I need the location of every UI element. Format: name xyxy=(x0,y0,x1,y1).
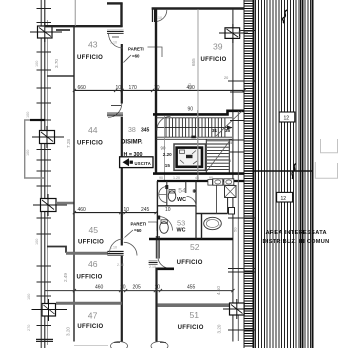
stair arrow xyxy=(158,127,233,129)
column C4 bottom-left xyxy=(32,299,68,321)
svg-text:2.49: 2.49 xyxy=(63,273,68,282)
svg-text:=60: =60 xyxy=(134,228,142,233)
svg-text:245: 245 xyxy=(141,207,150,213)
svg-text:10: 10 xyxy=(120,284,126,290)
door47 bottom arc xyxy=(111,342,128,348)
door51 bottom arc xyxy=(151,342,168,348)
svg-text:20: 20 xyxy=(224,76,228,80)
door52 leaf tick xyxy=(149,261,158,265)
svg-text:WC: WC xyxy=(177,228,186,234)
wall 45/46 gray bar y253 xyxy=(66,252,108,255)
svg-text:UFFICIO: UFFICIO xyxy=(77,275,103,281)
pareti note room43 xyxy=(128,47,144,59)
left wall inner line xyxy=(44,0,46,348)
left wall ticks xyxy=(36,9,53,342)
svg-text:UFFICIO: UFFICIO xyxy=(77,141,103,147)
top wall room39 y8.5 xyxy=(152,7,244,9)
svg-text:54: 54 xyxy=(178,188,186,195)
door43 tick xyxy=(112,36,119,38)
small rotated dim texts left xyxy=(26,61,39,331)
sill tick top-left xyxy=(56,29,70,31)
stairwell top wall xyxy=(153,111,244,115)
wc inner door arc xyxy=(187,197,197,207)
svg-text:1.10: 1.10 xyxy=(110,41,117,45)
svg-text:2.10: 2.10 xyxy=(117,263,124,267)
sink row rects xyxy=(213,179,223,185)
svg-text:45: 45 xyxy=(195,176,199,180)
exit sign box xyxy=(120,157,153,168)
door44 leaf xyxy=(107,113,123,117)
svg-text:12: 12 xyxy=(284,116,290,122)
door46 leaf striped xyxy=(107,251,123,256)
pareti note room45 xyxy=(131,222,147,233)
svg-text:1.10: 1.10 xyxy=(110,246,117,250)
svg-text:490: 490 xyxy=(187,83,192,90)
svg-text:12: 12 xyxy=(281,196,287,202)
column C2 left xyxy=(32,126,64,148)
thin line above left wall xyxy=(74,0,76,26)
right wall second line x238 xyxy=(237,111,239,341)
svg-text:170: 170 xyxy=(129,85,138,91)
elevator outer xyxy=(174,144,206,170)
svg-text:9: 9 xyxy=(219,224,221,228)
svg-text:DISTRIBUZ. IN COMUN: DISTRIBUZ. IN COMUN xyxy=(263,239,330,245)
left wall third line xyxy=(46,20,48,345)
wc partition y206 xyxy=(157,205,196,207)
flight2 break diagonal xyxy=(207,142,229,171)
svg-text:455: 455 xyxy=(187,284,196,290)
flight2 treads xyxy=(207,141,229,170)
balcony dark stub at y120 xyxy=(30,119,45,121)
svg-text:7.28: 7.28 xyxy=(66,139,71,148)
wc partition x216 xyxy=(216,181,218,214)
anti wall x201 xyxy=(201,214,203,240)
svg-text:2.10: 2.10 xyxy=(149,265,156,269)
wall 44 right x122 upper stub xyxy=(121,90,123,103)
svg-text:270: 270 xyxy=(27,325,31,331)
svg-text:DISIMP.: DISIMP. xyxy=(121,139,143,145)
wc door leaf lower xyxy=(157,216,160,220)
wall step y246 xyxy=(47,247,66,253)
svg-text:UFFICIO: UFFICIO xyxy=(201,57,227,63)
dim line y90 xyxy=(74,89,244,91)
column right top xyxy=(219,24,248,43)
dim ticks y212 xyxy=(73,211,158,214)
column C1 top-left xyxy=(30,22,62,42)
svg-text:90: 90 xyxy=(188,107,194,113)
wc partition x196 xyxy=(195,181,197,239)
wc door arc upper xyxy=(159,187,167,195)
right wall ticks xyxy=(228,31,256,331)
flight1 bottom line xyxy=(156,136,232,138)
dim line y212.6 xyxy=(74,212,157,214)
door39 leaf xyxy=(152,10,156,23)
svg-text:100: 100 xyxy=(27,294,31,300)
wc left wall x157 xyxy=(156,181,158,239)
wall hatch ladder band left edge xyxy=(243,0,245,348)
wc partition y213.5 xyxy=(196,213,228,215)
svg-text:1.20: 1.20 xyxy=(173,176,180,180)
svg-text:UFFICIO: UFFICIO xyxy=(77,55,103,61)
top notch horizontal xyxy=(107,2,123,4)
neighbour outline lower (light gray) xyxy=(315,162,337,178)
wall stub gray y203 xyxy=(56,202,74,204)
svg-text:100: 100 xyxy=(26,112,30,118)
basin oval anti xyxy=(204,217,222,229)
svg-text:10: 10 xyxy=(116,85,122,91)
svg-text:5: 5 xyxy=(229,159,231,163)
svg-text:205: 205 xyxy=(133,284,142,290)
svg-text:35: 35 xyxy=(228,141,232,145)
rotated dims right rooms xyxy=(187,58,238,334)
flight1 top line xyxy=(156,117,232,119)
stairwell bottom wall xyxy=(153,172,244,175)
stair break diagonal xyxy=(216,111,242,136)
column C3 left xyxy=(33,194,67,216)
dim ticks y90 xyxy=(73,89,246,92)
svg-text:31: 31 xyxy=(212,128,218,133)
svg-text:35: 35 xyxy=(225,128,231,133)
svg-text:10: 10 xyxy=(165,207,171,213)
svg-text:PARETI: PARETI xyxy=(131,222,147,227)
column right bottom xyxy=(223,299,252,319)
left wall outer line xyxy=(40,0,42,348)
svg-text:39: 39 xyxy=(213,42,223,52)
dim line x198 over core xyxy=(197,110,199,181)
svg-text:10: 10 xyxy=(155,284,161,290)
beam band 47 gray xyxy=(56,302,122,305)
bottom faint line xyxy=(74,345,108,347)
svg-text:47: 47 xyxy=(88,310,98,320)
svg-text:UFFICIO: UFFICIO xyxy=(177,260,203,266)
svg-text:4.55: 4.55 xyxy=(237,29,242,38)
svg-text:46: 46 xyxy=(88,259,98,269)
S squiggle mid xyxy=(292,164,296,179)
svg-text:90: 90 xyxy=(161,146,166,151)
svg-text:3.20: 3.20 xyxy=(66,327,71,336)
svg-text:38: 38 xyxy=(128,127,136,134)
toilet wc53 xyxy=(160,222,169,234)
star mark wc54 xyxy=(193,189,197,193)
svg-text:UFFICIO: UFFICIO xyxy=(78,240,104,246)
svg-text:WC: WC xyxy=(177,197,186,203)
beam band 51 gray xyxy=(158,303,233,307)
L wall 52 corner xyxy=(157,267,175,270)
wc door leaf upper xyxy=(165,185,168,189)
svg-text:4.10: 4.10 xyxy=(216,286,221,295)
wall 44 right x122 main xyxy=(121,117,123,246)
vertical hatch band xyxy=(256,0,311,348)
svg-text:660: 660 xyxy=(78,85,87,91)
balcony outline gray L left xyxy=(25,120,44,178)
wc corridor wall x167 xyxy=(166,181,168,206)
svg-text:53: 53 xyxy=(177,218,185,227)
svg-text:43: 43 xyxy=(88,40,98,50)
bottom ticks xyxy=(114,342,120,344)
svg-text:AREA INTERESSATA: AREA INTERESSATA xyxy=(266,230,327,236)
corridor wall B leaf striped xyxy=(155,236,160,259)
door44 tick xyxy=(111,105,121,107)
RIGHTBAND xyxy=(244,0,312,348)
left room wall x74 xyxy=(73,25,75,342)
wc partition x186 xyxy=(185,181,187,193)
door46 arc2 xyxy=(110,239,124,253)
svg-text:655: 655 xyxy=(191,58,196,66)
hatch band darker line pair xyxy=(299,0,301,348)
svg-text:52: 52 xyxy=(190,242,200,252)
svg-text:45: 45 xyxy=(89,225,99,235)
sink small rect xyxy=(208,180,213,186)
neighbour outline upper (light gray) xyxy=(321,139,338,153)
ladder band right thick edge xyxy=(252,0,254,348)
elevator top tick xyxy=(191,136,196,139)
shower square xyxy=(225,186,237,198)
rotated room dims left column xyxy=(54,59,71,336)
landing line y139 xyxy=(156,138,232,140)
svg-text:3.70: 3.70 xyxy=(54,59,59,68)
wc door arc lower xyxy=(159,217,173,231)
door43 leaf xyxy=(107,30,124,34)
wall 43/39 x122 xyxy=(121,44,123,90)
boiler box right xyxy=(229,208,235,215)
dim line y290.6 xyxy=(45,290,233,292)
svg-text:PARETI: PARETI xyxy=(128,47,144,52)
svg-text:460: 460 xyxy=(95,284,104,290)
label box 12 lower xyxy=(277,192,293,202)
wc top wall y181 xyxy=(157,180,244,182)
svg-text:90: 90 xyxy=(206,218,210,222)
svg-text:50: 50 xyxy=(233,227,238,232)
wc bottom wall y239 xyxy=(149,238,233,240)
dim row y210 texts xyxy=(78,207,171,213)
svg-text:3.20: 3.20 xyxy=(217,324,222,333)
elevator marks xyxy=(186,155,193,158)
dim row y87 texts xyxy=(78,85,196,91)
wall stub y75 xyxy=(47,75,74,77)
pareti leader room43 xyxy=(124,47,163,63)
svg-text:10: 10 xyxy=(124,207,130,213)
door43 arc xyxy=(109,34,123,48)
svg-text:100: 100 xyxy=(26,150,30,156)
pareti leader room45 xyxy=(125,222,158,238)
svg-text:44: 44 xyxy=(88,125,98,135)
svg-text:USCITA: USCITA xyxy=(135,161,151,166)
dim ticks y290 xyxy=(73,289,235,292)
svg-text:UFFICIO: UFFICIO xyxy=(77,324,103,330)
top wall room43 y26 xyxy=(45,25,123,27)
svg-text:=60: =60 xyxy=(132,54,140,59)
dim line vertical x198 xyxy=(197,9,199,181)
svg-text:460: 460 xyxy=(78,207,87,213)
room39 left wall x156 xyxy=(155,9,157,173)
svg-text:2.20: 2.20 xyxy=(163,152,172,157)
flight1 treads xyxy=(166,118,225,137)
top notch right vertical xyxy=(120,3,122,27)
stair door arc xyxy=(157,116,171,130)
svg-text:51: 51 xyxy=(190,310,200,320)
door52 arc xyxy=(158,259,171,269)
svg-text:15: 15 xyxy=(165,163,171,168)
S squiggle top xyxy=(283,10,287,23)
horizontal line crossing band xyxy=(244,170,313,172)
wc microdims top xyxy=(159,176,213,180)
flight2 side lines xyxy=(205,139,207,172)
corridor line x164 xyxy=(164,116,166,181)
right inner wall x233 xyxy=(232,9,234,342)
label box 12 upper xyxy=(279,112,295,122)
svg-text:90: 90 xyxy=(159,176,163,180)
hatch band right edge xyxy=(311,0,313,348)
door39 arc xyxy=(156,10,167,22)
svg-text:100: 100 xyxy=(35,61,39,67)
dim row y288 texts xyxy=(95,284,196,290)
svg-text:345: 345 xyxy=(141,127,150,133)
svg-text:UFFICIO: UFFICIO xyxy=(178,325,204,331)
wall A vertical xyxy=(121,256,123,342)
door46 arc xyxy=(124,242,137,255)
wc partition x227 xyxy=(227,181,229,214)
ladder rungs band xyxy=(245,1,253,346)
elevator inner xyxy=(177,148,202,167)
door44 arc xyxy=(108,104,122,118)
svg-text:100: 100 xyxy=(35,239,39,245)
toilet wc54 xyxy=(168,191,176,201)
wall B vertical xyxy=(155,268,157,342)
